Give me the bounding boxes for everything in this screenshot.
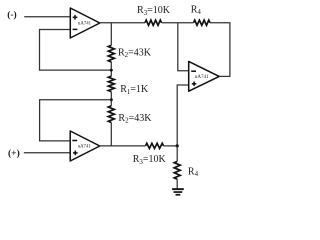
- resistor R2 (upper) zigzag: [108, 45, 114, 62]
- node C junction dot: [176, 144, 179, 147]
- wire U2 output / bottom net: [100, 145, 146, 147]
- resistor R3 (top) zigzag: [145, 20, 162, 25]
- wire R2 lower to bottom net: [110, 123, 112, 146]
- wire gain chain top lead: [110, 23, 112, 46]
- svg-text:uA741: uA741: [78, 145, 92, 150]
- svg-text:R2=43K: R2=43K: [118, 47, 152, 59]
- wire R4 to feedback corner: [210, 23, 230, 77]
- resistor R1 zigzag: [108, 76, 114, 91]
- wire U1 output / top net: [100, 22, 145, 24]
- wire R1 to node B: [110, 92, 112, 106]
- wire node C to R4 bottom: [176, 146, 178, 162]
- resistor R2 (lower) zigzag: [108, 106, 114, 123]
- wire branch to U3 non-inverting input: [177, 85, 189, 146]
- wire (-) input to U1 +: [24, 16, 70, 18]
- wire U3 output: [219, 75, 230, 77]
- svg-text:uA741: uA741: [195, 75, 209, 80]
- node A junction dot: [110, 69, 113, 72]
- ground: [172, 188, 184, 195]
- wire (+) input to U2 +: [24, 152, 70, 154]
- wire R4 bottom to ground: [176, 179, 178, 189]
- wire branch to U3 inverting input: [178, 23, 189, 70]
- node B junction dot: [110, 98, 113, 101]
- wire U2 feedback (inverting input loop): [40, 100, 112, 141]
- svg-text:R3=10K: R3=10K: [137, 5, 171, 17]
- resistor R4 (top) zigzag: [194, 20, 211, 25]
- op-amp U3 uA741: [189, 61, 220, 91]
- resistor R4 (bottom) zigzag: [174, 161, 180, 179]
- svg-text:R1=1K: R1=1K: [120, 84, 149, 96]
- svg-text:R2=43K: R2=43K: [118, 113, 152, 125]
- wire top net between R3 and R4: [162, 22, 194, 24]
- svg-text:(-): (-): [7, 10, 17, 21]
- op-amp U1 uA741: [70, 8, 100, 38]
- wire U1 feedback (inverting input loop): [40, 30, 112, 71]
- svg-text:uA741: uA741: [78, 21, 92, 26]
- wire R3 bottom to node C: [164, 145, 178, 147]
- svg-text:R3=10K: R3=10K: [133, 154, 167, 166]
- svg-text:(+): (+): [8, 148, 20, 159]
- op-amp U2 uA741: [70, 131, 100, 161]
- wire R2 upper to node A: [110, 62, 112, 76]
- resistor R3 (bottom) zigzag: [146, 143, 164, 148]
